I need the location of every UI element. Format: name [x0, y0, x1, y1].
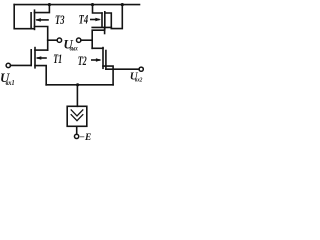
transistor T2 channel: [102, 48, 104, 69]
transistor T1 substrate arrow: [38, 57, 47, 59]
wire: T3 gate strap loop (left square): [14, 5, 33, 29]
wire: tail rail: [46, 84, 113, 86]
svg-text:вх1: вх1: [6, 79, 15, 87]
svg-text:−E: −E: [79, 133, 91, 143]
transistor T3 gate bar: [30, 13, 32, 29]
wire: T2 drain lead: [92, 47, 103, 49]
svg-text:вх2: вх2: [135, 76, 143, 83]
transistor T2 substrate arrow: [92, 59, 100, 61]
transistor T1 channel: [34, 48, 36, 68]
wire: T1 source down to tail: [35, 66, 46, 85]
wire: T4 drain loop to rail: [105, 5, 123, 29]
wire: T3 drain lead to rail: [35, 5, 50, 13]
wire: T4 gate strap to rail: [93, 5, 103, 13]
wire: T4 source lead across: [92, 26, 111, 28]
wire: top supply rail: [14, 4, 139, 6]
svg-text:Т3: Т3: [55, 13, 65, 27]
svg-text:Т4: Т4: [79, 12, 89, 26]
current source box: [67, 106, 87, 126]
wire: T4 source down: [92, 30, 104, 48]
wire: tail to current source box: [76, 85, 78, 107]
terminal circle output 2: [77, 38, 81, 42]
wire: output 2 to T4 source / T2 drain node: [81, 39, 92, 41]
svg-text:вых: вых: [70, 45, 79, 53]
svg-text:Т1: Т1: [53, 52, 62, 66]
transistor T4 gate bar: [101, 13, 103, 27]
node: junction dot T4 drain on rail: [121, 3, 124, 6]
node: junction dot tail: [76, 83, 79, 86]
terminal circle input 2: [139, 67, 143, 71]
wire: T2 source down to tail: [103, 66, 113, 85]
transistor T1 gate bar: [30, 50, 32, 66]
wire: box to -E terminal: [76, 126, 78, 134]
transistor T2 gate bar: [105, 51, 107, 70]
wire: T1 drain lead: [35, 49, 48, 51]
wire: T4 source stub: [104, 29, 106, 34]
current source chevron 2: [71, 115, 83, 121]
terminal circle input 1: [6, 63, 10, 67]
transistor T4 substrate arrow: [91, 19, 99, 21]
node: junction dot T4 gate on rail: [91, 3, 94, 6]
node: junction dot T3 drain on rail: [48, 3, 51, 6]
svg-text:Т2: Т2: [78, 54, 87, 68]
transistor T3 substrate arrow: [37, 19, 48, 21]
terminal circle -E: [74, 134, 78, 138]
current source chevron 1: [71, 110, 83, 116]
wire: T3 source down to T1 drain: [35, 27, 48, 51]
terminal circle output 1: [57, 38, 61, 42]
wire: input 1 to T1 gate: [10, 64, 31, 66]
wire: T2 gate to input 2: [106, 68, 139, 70]
wire: output tap 1: [48, 39, 58, 41]
transistor T3 channel: [34, 10, 36, 29]
transistor T4 channel: [104, 12, 106, 29]
